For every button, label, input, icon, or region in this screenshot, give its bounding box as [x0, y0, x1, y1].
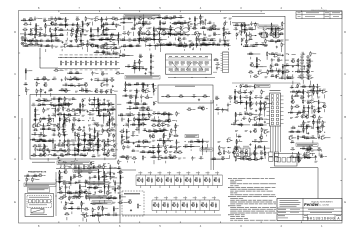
svg-text:MUSICAL INSTRUMENTS: MUSICAL INSTRUMENTS	[311, 201, 333, 204]
svg-text:B: B	[14, 115, 16, 119]
svg-text:C: C	[344, 72, 346, 76]
svg-text:D: D	[344, 30, 346, 34]
svg-text:E: E	[344, 200, 346, 204]
svg-text:0013816000: 0013816000	[307, 218, 335, 222]
svg-text:E: E	[14, 200, 16, 204]
svg-text:PREAMP/EFFECTS: PREAMP/EFFECTS	[28, 170, 47, 173]
svg-text:A: A	[14, 157, 16, 161]
svg-text:B: B	[344, 115, 346, 119]
svg-text:D: D	[14, 30, 16, 34]
svg-text:A: A	[344, 157, 346, 161]
svg-text:C: C	[14, 72, 16, 76]
svg-text:R E V I S I O N S: R E V I S I O N S	[311, 10, 327, 12]
svg-text:Corona, CA USA: Corona, CA USA	[315, 204, 329, 207]
